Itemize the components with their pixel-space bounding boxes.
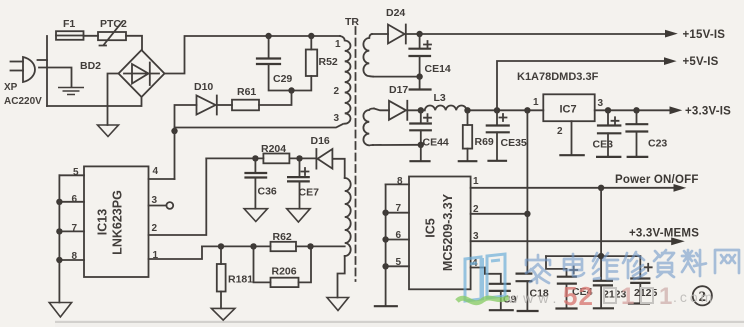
ground triangle C36 — [244, 209, 267, 222]
svg-text:IC13: IC13 — [96, 209, 110, 235]
svg-text:3: 3 — [598, 98, 604, 109]
transformer primary winding — [340, 36, 351, 124]
capacitor CE3 — [607, 110, 609, 125]
resistor R61 — [232, 100, 259, 111]
capacitor C9 — [490, 284, 510, 291]
wire sec2 bottom return — [373, 144, 421, 146]
transformer secondary 1 — [363, 34, 373, 77]
svg-text:1: 1 — [659, 283, 672, 310]
svg-text:F1: F1 — [63, 18, 75, 30]
wire D10 anode left and down — [175, 105, 197, 131]
svg-text:L3: L3 — [434, 92, 446, 104]
node IC5 branch — [524, 107, 530, 113]
wire CE4 feed — [546, 256, 567, 276]
svg-text:PTC2: PTC2 — [100, 18, 127, 30]
plug prong top — [11, 61, 24, 63]
plug prong bottom — [11, 70, 24, 72]
svg-text:C36: C36 — [258, 186, 277, 198]
wire pin3 of TR to junction — [175, 124, 344, 128]
capacitor C36 — [254, 158, 256, 172]
svg-text:2: 2 — [334, 86, 340, 97]
svg-text:CE14: CE14 — [425, 63, 451, 75]
svg-text:IC5: IC5 — [424, 218, 438, 238]
svg-text:1: 1 — [335, 39, 341, 50]
page number circled 2 — [693, 286, 712, 305]
ground triangle winding — [327, 298, 349, 311]
svg-text:2: 2 — [152, 223, 158, 234]
svg-text:6: 6 — [72, 194, 78, 205]
svg-text:MC5209-3.3Y: MC5209-3.3Y — [441, 193, 455, 271]
fuse F1 — [56, 31, 84, 40]
diode D16 — [316, 149, 332, 169]
node CE44 bottom — [418, 142, 424, 148]
svg-text:XP: XP — [4, 82, 18, 93]
thermistor PTC2 — [98, 32, 126, 40]
svg-text:R204: R204 — [261, 143, 286, 155]
riser to C18 — [526, 110, 528, 273]
svg-text:TR: TR — [345, 16, 359, 28]
svg-text:BD2: BD2 — [80, 60, 101, 72]
svg-text:R206: R206 — [272, 266, 297, 278]
capacitor C18 — [517, 274, 532, 282]
diode D10 — [197, 96, 217, 115]
resistor R181 — [220, 246, 222, 264]
resistor R69 — [467, 110, 469, 125]
inductor L3 — [425, 105, 467, 110]
svg-text:R61: R61 — [237, 86, 256, 98]
wire sec1 bottom to CE14 — [373, 76, 420, 78]
ground triangle (bridge) — [98, 125, 119, 137]
wire R61 to D10 — [218, 104, 232, 106]
wire R62 feedback line — [202, 245, 345, 247]
wire +5V riser — [497, 61, 666, 110]
svg-text:C29: C29 — [273, 73, 292, 85]
wire AC bottom — [47, 105, 141, 107]
resistor R52 — [310, 36, 312, 50]
svg-text:CE35: CE35 — [501, 137, 527, 149]
IC5 ground rail — [385, 184, 387, 306]
arrow +3.3V-MEMS — [671, 237, 685, 245]
svg-text:Power ON/OFF: Power ON/OFF — [615, 174, 699, 186]
capacitor C23 — [636, 110, 638, 124]
bridge rectifier BD2 — [119, 50, 165, 97]
ground bar CE14 — [419, 77, 421, 90]
svg-text:.com: .com — [673, 289, 715, 305]
earth ground — [58, 88, 84, 95]
ground bar CE44 — [420, 145, 422, 161]
wire 2125 feed — [639, 256, 641, 278]
svg-text:5: 5 — [73, 167, 79, 178]
svg-text:+3.3V-MEMS: +3.3V-MEMS — [629, 228, 699, 240]
watermark book logo — [465, 254, 505, 301]
diode D17 — [389, 101, 407, 120]
resistor R204 — [263, 154, 289, 164]
svg-text:LNK623PG: LNK623PG — [111, 190, 125, 255]
capacitor C29 — [268, 36, 270, 58]
plug XP — [23, 57, 35, 82]
svg-text:1: 1 — [473, 176, 479, 187]
node CE7 — [296, 155, 302, 161]
arrow +3.3V-IS — [670, 106, 683, 114]
svg-text:AC220V: AC220V — [4, 96, 42, 107]
svg-text:+5V-IS: +5V-IS — [683, 56, 719, 68]
node R181 — [218, 243, 224, 249]
IC13 ground rail — [58, 175, 60, 302]
node R69 top — [464, 107, 470, 113]
wire D17 to L3 — [407, 109, 424, 111]
wire D24 to +15V arrow — [406, 33, 666, 35]
wire bridge right vertex up to top rail — [165, 36, 341, 74]
wire R204 line — [206, 157, 315, 159]
capacitor CE35 — [496, 110, 498, 125]
node R206 right — [307, 243, 313, 249]
wire F1 to PTC2 — [84, 35, 99, 37]
svg-text:D16: D16 — [311, 135, 330, 147]
svg-text:1: 1 — [621, 283, 634, 310]
diode D24 — [388, 25, 406, 44]
ground triangle IC13 — [49, 303, 71, 318]
node C23 top — [633, 107, 639, 113]
svg-text:R62: R62 — [273, 231, 292, 243]
arrow Power ON/OFF — [674, 184, 687, 192]
node CE35 top — [494, 107, 500, 113]
wire junction down to IC13 pin4 level — [174, 131, 176, 179]
node top rail C29 — [265, 33, 271, 39]
svg-text:R52: R52 — [319, 56, 338, 68]
node C36 — [252, 155, 258, 161]
svg-text:R69: R69 — [475, 136, 494, 148]
wire sec1 top to D24 — [372, 33, 388, 35]
scan edge band bottom — [55, 321, 744, 323]
node CE14 bottom — [416, 73, 422, 79]
IC U13 box — [84, 166, 149, 277]
ground triangle CE7 — [287, 209, 310, 222]
node CE3 top — [605, 107, 611, 113]
svg-text:D10: D10 — [194, 81, 213, 93]
transformer feedback winding — [345, 178, 351, 256]
svg-text:www.: www. — [507, 290, 561, 306]
svg-text:CE7: CE7 — [299, 187, 320, 199]
node power branch — [598, 185, 604, 191]
arrow +15V — [665, 30, 678, 38]
wire IC7 pin3 out — [595, 109, 672, 111]
capacitor 2123 — [594, 281, 612, 286]
svg-text:D17: D17 — [389, 84, 408, 96]
svg-text:1: 1 — [533, 97, 539, 108]
capacitor CE7 — [299, 158, 301, 177]
node CE44 top — [418, 107, 424, 113]
svg-text:IC7: IC7 — [560, 104, 577, 116]
wire PTC2 to bridge top — [126, 36, 142, 50]
wire sec2 top to D17 — [374, 109, 389, 111]
IC U5 box — [409, 177, 471, 290]
wire winding bottom to ground — [338, 256, 345, 298]
regulator IC7 — [543, 94, 594, 121]
arrow +5V — [664, 57, 677, 65]
ground triangle R181 — [211, 308, 235, 320]
wire L3 to IC7 pin1 — [467, 109, 544, 111]
node CE14 top — [416, 31, 422, 37]
svg-text:CE3: CE3 — [593, 139, 614, 151]
power sub-rail to CE4/2125 — [600, 188, 602, 281]
capacitor CE44 — [420, 110, 422, 123]
svg-text:K1A78DMD3.3F: K1A78DMD3.3F — [517, 71, 599, 83]
svg-text:2: 2 — [557, 126, 563, 137]
node C29/R52 join — [288, 87, 294, 93]
svg-text:C23: C23 — [648, 138, 667, 150]
capacitor CE14 — [419, 34, 421, 49]
capacitor CE4 — [558, 277, 576, 284]
watermark chinese characters — [526, 250, 739, 283]
transformer core (dashed) — [355, 27, 357, 281]
svg-text:8: 8 — [397, 176, 403, 187]
resistor R62 — [271, 242, 297, 251]
svg-text:CE44: CE44 — [423, 137, 449, 149]
transformer secondary 2 — [363, 109, 374, 146]
svg-text:7: 7 — [72, 223, 78, 234]
wire join down to R61 line — [259, 91, 292, 106]
wire IC7 pin2 to ground — [571, 121, 573, 155]
resistor R206 parallel branch — [254, 246, 312, 282]
svg-text:3: 3 — [152, 195, 158, 206]
wire bridge left vertex to ground — [108, 74, 119, 126]
wire D16 to feedback winding — [332, 159, 344, 178]
node pin3 junction — [171, 128, 177, 134]
node R206 left — [250, 243, 256, 249]
wire bridge bottom vertex — [141, 97, 143, 106]
wire riser x47 — [46, 36, 48, 106]
node top rail R52 — [308, 33, 314, 39]
svg-text:52: 52 — [563, 281, 594, 311]
wire plug mid to earth — [39, 68, 72, 88]
capacitor 2125 — [631, 279, 649, 283]
svg-text:+15V-IS: +15V-IS — [683, 29, 726, 41]
wire plug top to F1 riser — [38, 59, 48, 61]
svg-text:D24: D24 — [386, 7, 405, 19]
svg-text:+3.3V-IS: +3.3V-IS — [685, 106, 731, 118]
svg-text:3: 3 — [334, 113, 340, 124]
svg-text:4: 4 — [153, 166, 159, 177]
svg-text:R181: R181 — [228, 274, 253, 286]
